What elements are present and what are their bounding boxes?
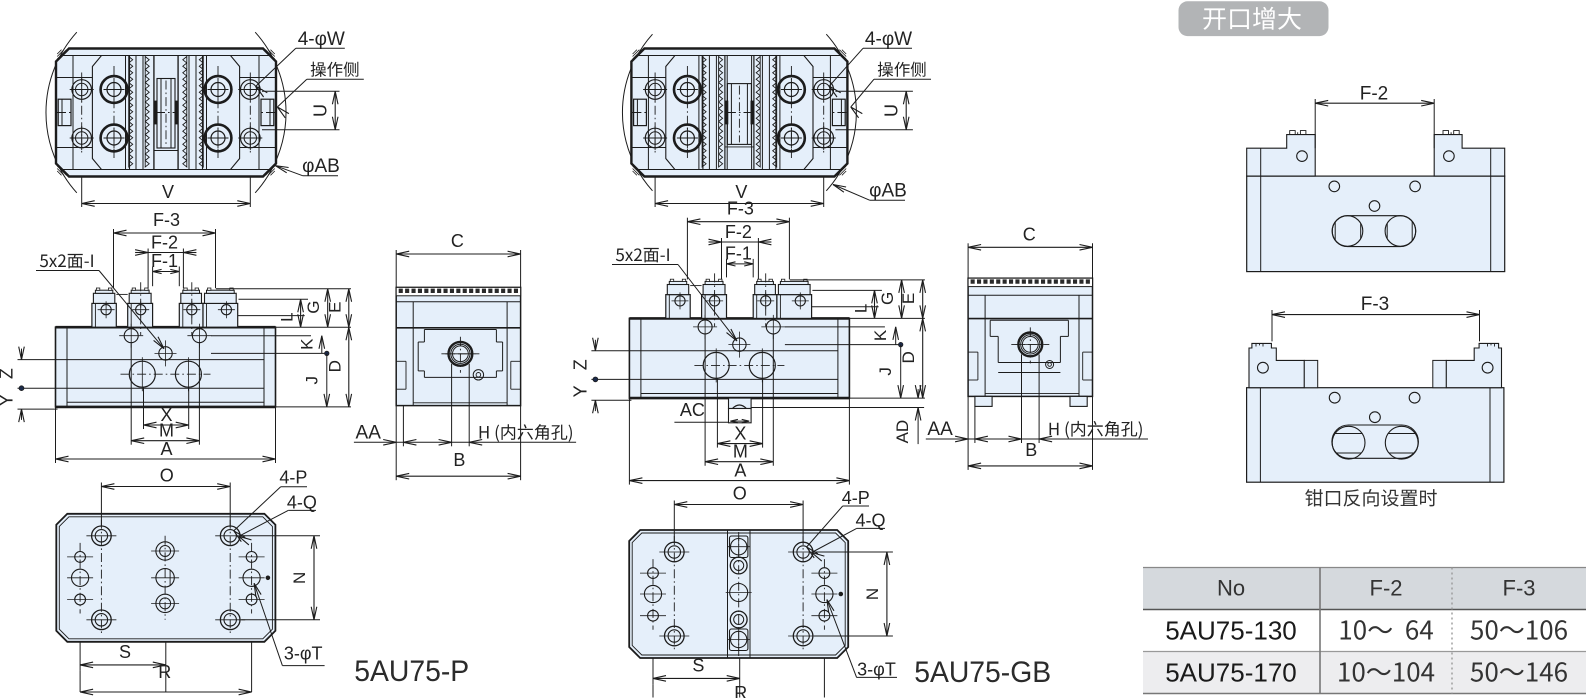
svg-text:N: N — [863, 588, 882, 600]
svg-text:4-Q: 4-Q — [855, 511, 885, 531]
svg-text:F-3: F-3 — [1503, 576, 1536, 601]
svg-text:E: E — [325, 302, 344, 313]
svg-text:φAB: φAB — [302, 156, 340, 177]
svg-text:Z: Z — [0, 368, 17, 379]
svg-text:M: M — [733, 442, 748, 462]
svg-text:E: E — [899, 293, 918, 304]
svg-text:F-2: F-2 — [151, 233, 178, 253]
svg-text:L: L — [851, 304, 870, 313]
svg-text:O: O — [160, 466, 174, 486]
svg-text:5AU75-P: 5AU75-P — [354, 655, 469, 688]
svg-text:B: B — [1025, 440, 1037, 460]
svg-text:D: D — [325, 360, 344, 372]
svg-text:U: U — [311, 104, 331, 117]
svg-text:X: X — [734, 424, 746, 444]
svg-text:4-φW: 4-φW — [298, 29, 345, 50]
svg-text:No: No — [1217, 576, 1245, 601]
svg-text:4-P: 4-P — [279, 468, 307, 488]
svg-text:C: C — [1023, 224, 1036, 244]
svg-text:A: A — [160, 439, 172, 459]
svg-text:4-P: 4-P — [842, 488, 870, 508]
svg-text:Y: Y — [0, 394, 17, 406]
svg-text:AA: AA — [927, 419, 953, 440]
svg-text:N: N — [290, 572, 309, 584]
svg-text:3-φT: 3-φT — [857, 660, 896, 680]
svg-text:U: U — [882, 104, 902, 117]
svg-text:K: K — [871, 329, 890, 341]
svg-text:5AU75-GB: 5AU75-GB — [914, 656, 1051, 689]
svg-text:F-2: F-2 — [1360, 84, 1389, 105]
svg-text:O: O — [733, 484, 747, 504]
svg-text:5AU75-130: 5AU75-130 — [1165, 616, 1297, 646]
svg-text:F-1: F-1 — [151, 251, 178, 271]
svg-text:J: J — [876, 367, 895, 376]
svg-text:A: A — [734, 461, 746, 481]
svg-text:K: K — [297, 338, 316, 350]
svg-text:F-3: F-3 — [1361, 294, 1390, 315]
svg-text:Z: Z — [570, 359, 590, 370]
svg-text:C: C — [451, 231, 464, 251]
svg-text:G: G — [878, 292, 897, 305]
svg-text:J: J — [302, 376, 321, 385]
svg-text:4-Q: 4-Q — [287, 493, 317, 513]
svg-text:AC: AC — [680, 400, 705, 420]
svg-text:R: R — [734, 683, 747, 698]
svg-text:3-φT: 3-φT — [284, 644, 323, 664]
svg-text:G: G — [304, 301, 323, 314]
svg-text:F-2: F-2 — [725, 222, 752, 242]
svg-text:AA: AA — [356, 423, 382, 444]
svg-text:D: D — [899, 351, 918, 363]
svg-text:V: V — [162, 182, 174, 202]
svg-text:B: B — [453, 450, 465, 470]
svg-text:R: R — [158, 662, 171, 682]
svg-text:5AU75-170: 5AU75-170 — [1165, 658, 1297, 688]
svg-text:φAB: φAB — [869, 181, 907, 202]
svg-text:L: L — [278, 312, 297, 321]
svg-text:4-φW: 4-φW — [865, 29, 912, 50]
svg-text:AD: AD — [893, 420, 912, 444]
svg-text:F-3: F-3 — [727, 199, 754, 219]
svg-text:S: S — [692, 655, 704, 675]
svg-text:Y: Y — [570, 385, 590, 397]
svg-text:F-1: F-1 — [725, 243, 752, 263]
svg-text:F-2: F-2 — [1370, 576, 1403, 601]
svg-text:S: S — [119, 642, 131, 662]
svg-text:F-3: F-3 — [153, 210, 180, 230]
svg-text:M: M — [159, 421, 174, 441]
